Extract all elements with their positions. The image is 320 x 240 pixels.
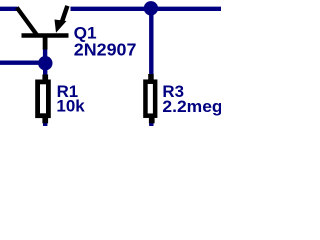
svg-text:10k: 10k — [56, 98, 85, 116]
svg-text:2N2907: 2N2907 — [74, 39, 137, 59]
svg-text:2.2meg: 2.2meg — [162, 98, 221, 116]
